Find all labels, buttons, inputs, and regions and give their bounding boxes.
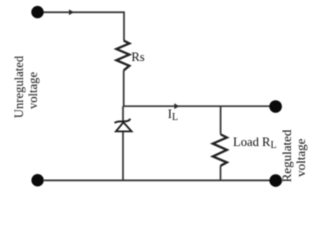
terminal bottom-left: [31, 174, 43, 186]
zener diode cathode bar: [115, 119, 131, 123]
zener diode triangle: [116, 122, 132, 131]
svg-text:Rs: Rs: [131, 50, 144, 64]
arrow on top wire: [69, 9, 74, 15]
terminal top-left: [31, 6, 43, 18]
resistor Load R_L: [213, 134, 227, 165]
svg-text:IL: IL: [168, 107, 178, 123]
svg-text:Unregulated: Unregulated: [12, 55, 26, 118]
svg-text:voltage: voltage: [26, 72, 40, 109]
svg-text:voltage: voltage: [293, 138, 308, 176]
wire top rail: [43, 12, 124, 40]
resistor R_s: [116, 41, 129, 71]
wire bottom rail: [44, 179, 270, 181]
wire zener branch top: [122, 106, 124, 121]
svg-text:Regulated: Regulated: [279, 129, 294, 182]
arrow on middle wire (I_L): [174, 103, 179, 109]
wire zener branch bottom: [122, 132, 124, 181]
wire middle rail: [124, 70, 270, 106]
terminal mid-right: [269, 100, 282, 113]
terminal bottom-right: [269, 174, 282, 187]
svg-text:Load RL: Load RL: [233, 135, 277, 151]
wire load branch top: [220, 106, 222, 134]
wire load branch bottom: [220, 166, 222, 181]
